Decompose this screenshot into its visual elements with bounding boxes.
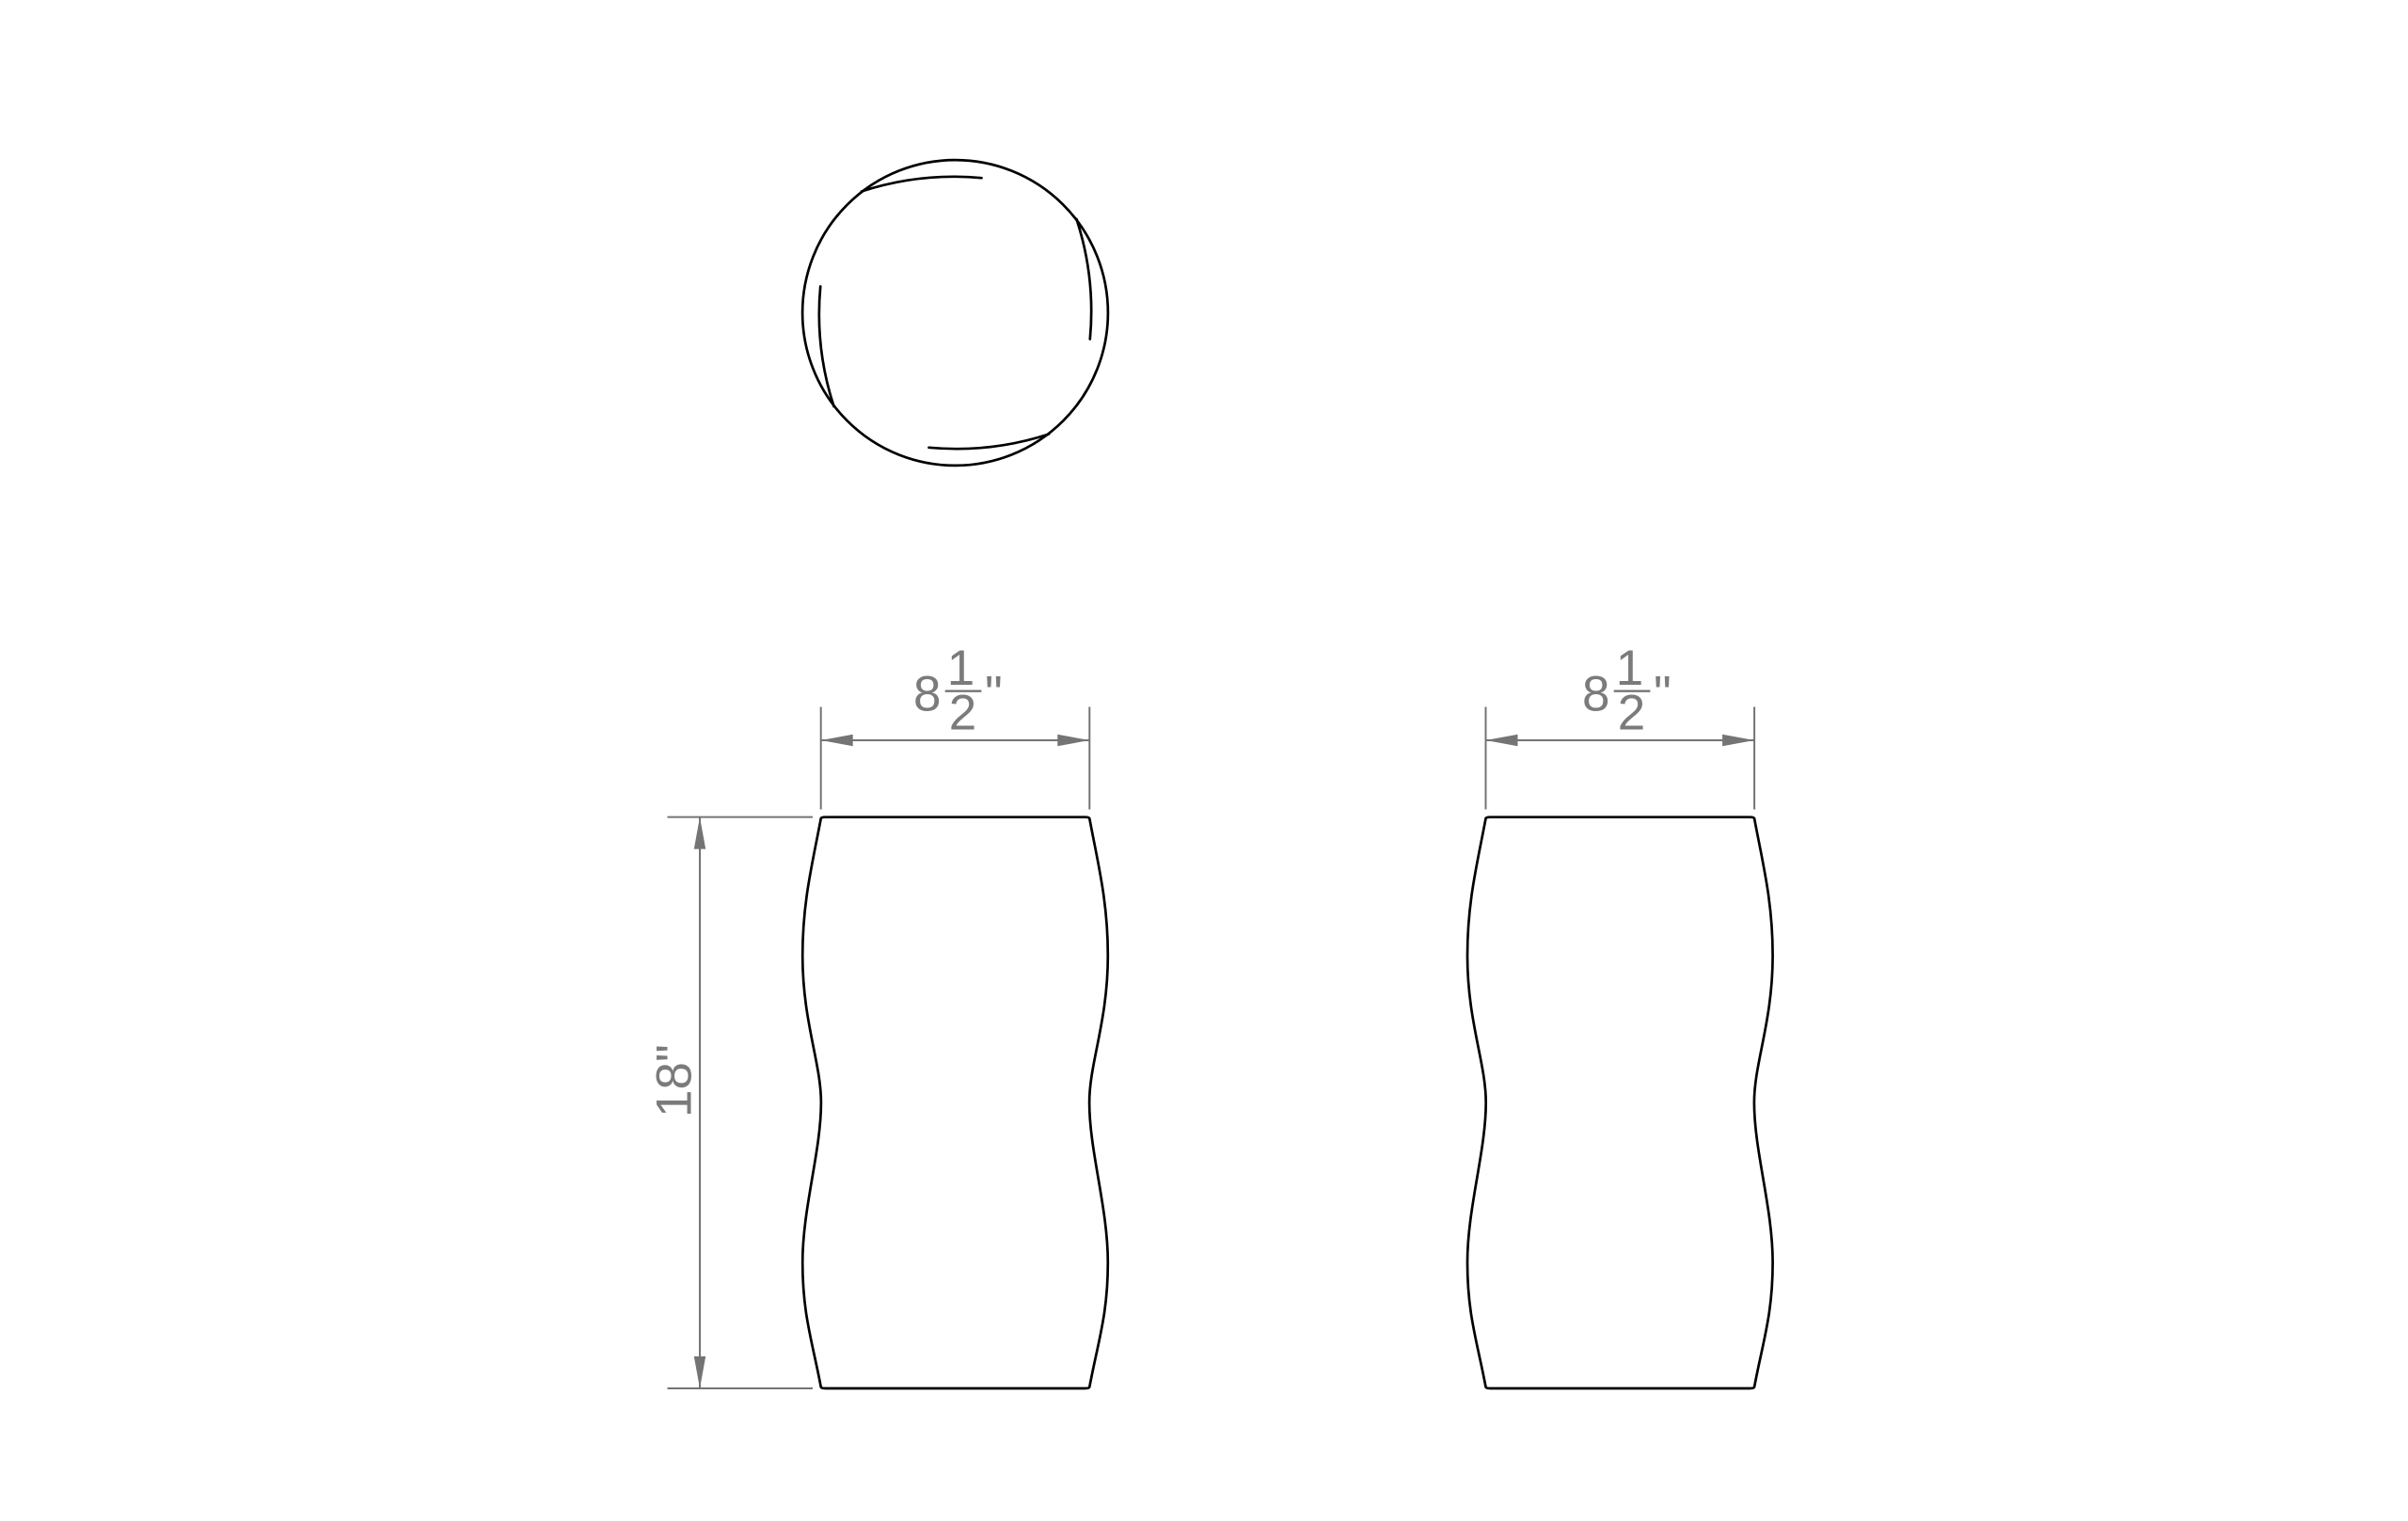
top view swirl arc bottom — [929, 435, 1050, 450]
front height dim extension line bottom — [668, 1387, 814, 1389]
front height dim extension line top — [668, 816, 814, 818]
svg-text:18": 18" — [646, 1044, 702, 1117]
svg-text:": " — [1654, 666, 1671, 721]
front width dim line — [821, 739, 1090, 741]
front view body outline — [802, 817, 1108, 1388]
top view swirl arc left — [819, 287, 834, 407]
side width dim line — [1486, 739, 1755, 741]
side view body outline — [1467, 817, 1773, 1388]
front height dim arrow bottom — [694, 1356, 705, 1388]
svg-text:8: 8 — [1582, 666, 1609, 721]
svg-text:2: 2 — [949, 686, 976, 741]
top view swirl arc top — [862, 177, 982, 192]
svg-text:8: 8 — [913, 666, 941, 721]
front width dim extension line left — [820, 707, 822, 810]
svg-text:2: 2 — [1618, 686, 1645, 741]
front width dim extension line right — [1088, 707, 1090, 810]
front height dim line — [699, 817, 701, 1388]
side width dim arrow left — [1486, 735, 1518, 746]
svg-text:": " — [985, 666, 1003, 721]
side width dim extension line right — [1753, 707, 1755, 810]
top view circle — [802, 160, 1108, 466]
side width dim extension line left — [1485, 707, 1487, 810]
side width dim arrow right — [1722, 735, 1754, 746]
front height dim arrow top — [694, 817, 705, 849]
side width dim fraction bar — [1614, 690, 1651, 692]
front width dim arrow right — [1057, 735, 1089, 746]
front width dim fraction bar — [945, 690, 982, 692]
front width dim arrow left — [821, 735, 853, 746]
top view swirl arc right — [1077, 219, 1092, 340]
